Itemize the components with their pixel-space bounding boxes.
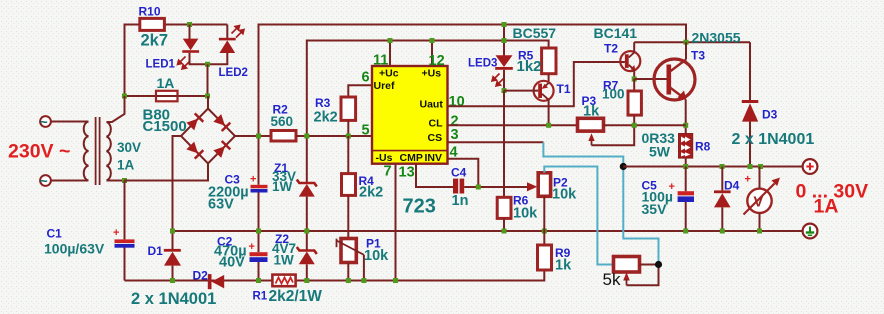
capacitor C3 xyxy=(251,185,268,193)
wire: D4 top stub xyxy=(721,167,723,191)
node: junction fuse right / bridge top xyxy=(205,94,210,99)
svg-text:+: + xyxy=(745,174,751,186)
wire: AC2 line to bridge bottom xyxy=(125,164,209,181)
wire: LED1 top stub xyxy=(189,25,191,40)
svg-text:11: 11 xyxy=(373,53,388,69)
wire: bridge top stub xyxy=(207,96,209,109)
wire: cyan sense line CS to output xyxy=(543,142,658,262)
svg-text:10k: 10k xyxy=(364,248,389,264)
svg-text:R8: R8 xyxy=(695,140,711,154)
svg-text:C1500: C1500 xyxy=(143,118,187,135)
bridge diode upper-right xyxy=(213,114,231,132)
svg-text:2k2: 2k2 xyxy=(314,110,338,126)
node: junction pin12 xyxy=(430,38,435,43)
diode D1 xyxy=(164,249,181,266)
wire: C3/C2 column from raw+ node xyxy=(258,136,260,185)
node: junction secondary bottom xyxy=(122,178,127,183)
wire: C2 bottom stub xyxy=(258,262,260,281)
wire: voltmeter bottom stub xyxy=(759,213,761,231)
resistor R1 (wirewound) xyxy=(272,275,295,287)
wire: 5k wiper loop xyxy=(627,265,659,286)
svg-text:CMP: CMP xyxy=(400,152,423,164)
resistor R4 xyxy=(342,174,356,196)
LED3 light arrows xyxy=(492,74,504,87)
P1 wiper xyxy=(337,239,364,255)
fuse 1A xyxy=(156,91,178,102)
wire: R4 bottom to P1 xyxy=(347,195,349,238)
wire: R7 top stub xyxy=(633,79,635,91)
svg-text:3: 3 xyxy=(451,127,459,143)
svg-text:+Uc: +Uc xyxy=(379,68,399,80)
wire: R4 top stub xyxy=(347,136,349,174)
wire: T2 collector up to rail xyxy=(633,42,635,52)
resistor R5 xyxy=(542,48,556,74)
svg-text:2k2/1W: 2k2/1W xyxy=(269,288,323,305)
node: junction LED3 feed xyxy=(502,38,507,43)
svg-text:10k: 10k xyxy=(552,187,577,203)
wire: LED2 bottom to mid junction xyxy=(208,53,228,64)
node: solder dot 5k wiper xyxy=(655,261,662,268)
wire: T1 collector to CL line xyxy=(548,100,550,126)
wire: T2 emitter down xyxy=(633,70,635,79)
resistor R10 xyxy=(140,18,165,30)
node: junction R10/LED1 xyxy=(187,22,192,27)
diode D4 xyxy=(714,190,731,207)
svg-text:R3: R3 xyxy=(315,96,331,110)
node: junction P3/R7 xyxy=(632,123,637,128)
wire: top-left corner from fuse node up to R10 xyxy=(125,25,140,97)
resistor R2 xyxy=(271,131,296,142)
diode D2 xyxy=(208,274,224,289)
wire: T3 base line xyxy=(634,78,666,80)
node: junction ground rail D1 xyxy=(170,229,175,234)
wire: Z1 bottom to ground xyxy=(306,197,308,231)
potentiometer P2 xyxy=(538,173,550,197)
node: junction T3 emitter / CL / R8 xyxy=(683,123,688,128)
svg-text:BC557: BC557 xyxy=(513,25,557,41)
svg-text:CL: CL xyxy=(429,118,444,130)
wire: IC pin 12 stub xyxy=(431,41,433,67)
svg-text:2k2: 2k2 xyxy=(359,185,383,201)
resistor R6 xyxy=(497,197,511,218)
bridge diode lower-left xyxy=(186,141,204,159)
svg-text:2N3055: 2N3055 xyxy=(692,30,741,46)
wire: cyan line P2 top to 5k pot xyxy=(544,167,613,265)
wire: Z2 bottom to negative rail xyxy=(306,264,308,280)
node: junction negative rail P1 xyxy=(346,278,351,283)
wire: pin 13 CMP to C4 xyxy=(416,164,453,187)
wire: D4 bottom stub xyxy=(721,207,723,231)
svg-text:Uaut: Uaut xyxy=(420,99,444,111)
wire: + output rail xyxy=(623,166,802,168)
node: junction ground rail Z1/Z2 xyxy=(304,229,309,234)
svg-text:35V: 35V xyxy=(642,201,668,217)
wire: R6 bottom to ground rail xyxy=(503,218,505,231)
wire: D3 bottom to output rail xyxy=(749,122,751,167)
node: junction INV/C4 xyxy=(476,185,481,190)
terminal: + output xyxy=(803,159,818,174)
wire: secondary top to fuse node xyxy=(107,96,125,122)
wire: bridge right corner to R2 xyxy=(235,135,271,137)
svg-text:2 x 1N4001: 2 x 1N4001 xyxy=(131,290,216,308)
wire: IC pin 6 Uref to R3 xyxy=(348,85,372,97)
wire: IC pin 11 stub xyxy=(389,41,391,67)
node: junction LED3/T1 base/R6 xyxy=(502,88,507,93)
node: junction D3/output rail xyxy=(748,164,753,169)
transistor T2 BC141 xyxy=(620,51,640,71)
wire: LED3 bottom to T1 base node xyxy=(503,70,505,91)
wire: C1 column lower xyxy=(124,247,126,281)
wire: collector supply rail top xyxy=(259,25,687,137)
wire: mains top lead xyxy=(51,121,89,123)
svg-text:1A: 1A xyxy=(117,158,135,173)
svg-text:63V: 63V xyxy=(208,197,234,213)
svg-text:1k: 1k xyxy=(583,104,600,120)
svg-text:230V ~: 230V ~ xyxy=(8,141,70,163)
wire: C2 top stub xyxy=(258,231,260,252)
LED2 light arrows xyxy=(232,26,245,38)
svg-text:CS: CS xyxy=(428,132,443,144)
wire: fuse line (AC node) xyxy=(125,95,209,97)
node: junction pin11 xyxy=(388,38,393,43)
svg-text:Uref: Uref xyxy=(374,80,396,92)
wire: R3 bottom to NI node xyxy=(347,120,349,136)
capacitor C4 xyxy=(453,179,464,194)
svg-text:~: ~ xyxy=(40,114,48,130)
LED2 diode xyxy=(219,38,236,53)
node: junction negative rail pin7 xyxy=(393,278,398,283)
node: junction T2 emitter/R7/T3 base xyxy=(632,77,637,82)
node: junction R8/output rail xyxy=(683,164,688,169)
node: junction C5/ground xyxy=(683,229,688,234)
capacitor C2 xyxy=(250,252,268,262)
LED3 diode xyxy=(495,55,513,70)
node: junction voltmeter/output rail xyxy=(758,164,763,169)
wire: T3 collector up to rail xyxy=(685,42,687,59)
svg-text:+Us: +Us xyxy=(422,68,442,80)
potentiometer P3 xyxy=(578,118,604,131)
wire: T3 emitter down to R8 xyxy=(685,100,687,134)
node: junction negative rail P1 wiper xyxy=(361,278,366,283)
LED1 light arrows xyxy=(178,57,191,70)
svg-text:BC141: BC141 xyxy=(594,25,638,41)
wire: negative auxiliary bottom rail xyxy=(125,270,545,281)
wire: R8 bottom to output rail xyxy=(685,158,687,166)
svg-text:R10: R10 xyxy=(139,5,161,19)
wire: P2 bottom to ground xyxy=(543,196,545,245)
wire: T1 base line xyxy=(504,90,538,92)
wire: voltmeter top stub xyxy=(759,167,761,189)
wire: LED2 top drop xyxy=(226,25,228,39)
resistor R7 xyxy=(628,91,641,115)
capacitor C5 xyxy=(678,191,694,202)
node: junction ground rail C3/C2 xyxy=(256,229,261,234)
capacitor C1 xyxy=(115,239,135,247)
wire: C1 column upper xyxy=(124,181,126,240)
transformer TR primary winding xyxy=(84,122,89,181)
svg-text:5k: 5k xyxy=(603,270,621,289)
wire: R5 bottom to T1 emitter xyxy=(548,74,550,84)
wire: pin 4 INV to C4 node xyxy=(448,159,479,187)
bridge diode upper-left xyxy=(186,113,204,131)
wire: LED3/R6 column xyxy=(503,25,505,56)
wire: +Uc/+Us feed line xyxy=(307,41,549,137)
svg-text:V: V xyxy=(754,194,764,210)
svg-text:T2: T2 xyxy=(604,42,618,56)
5k wiper arrow xyxy=(623,272,630,285)
wire: P1 wiper to negative rail xyxy=(363,255,365,281)
node: junction R3/R4/NI xyxy=(346,134,351,139)
wire: C3 bottom to ground rail xyxy=(258,192,260,231)
P2 wiper arrow xyxy=(527,182,537,191)
node: junction top rail / LED3 xyxy=(502,22,507,27)
IC U1 723 regulator body xyxy=(372,66,448,164)
P3 wiper arrow xyxy=(588,133,594,145)
svg-text:1A: 1A xyxy=(157,75,175,91)
wire: R7 bottom to CL line xyxy=(633,115,635,125)
svg-text:1k: 1k xyxy=(555,258,572,274)
node: junction negative rail C2 xyxy=(256,278,261,283)
LED1 diode xyxy=(182,39,199,53)
svg-text:D1: D1 xyxy=(148,244,164,258)
node: junction LED1/LED2 bottom xyxy=(205,62,210,67)
node: junction 33V / Z1 xyxy=(304,134,309,139)
svg-text:100: 100 xyxy=(602,87,625,102)
svg-text:R1: R1 xyxy=(253,291,268,303)
svg-text:7: 7 xyxy=(384,164,392,180)
resistor R9 xyxy=(538,245,552,270)
wire: mains bottom lead xyxy=(51,180,89,182)
wire: IC pin 3 CS stub xyxy=(448,141,544,143)
transistor T3 2N3055 xyxy=(654,59,695,100)
wire: P3 right to R8 top node xyxy=(604,124,686,126)
wire: Z2 column top xyxy=(306,231,308,250)
svg-text:2 x 1N4001: 2 x 1N4001 xyxy=(732,131,815,148)
wire: D1 top stub xyxy=(172,231,174,249)
wire: ground rail xyxy=(173,230,803,232)
potentiometer P1 xyxy=(341,239,356,263)
wire: T2/T3 collector rail xyxy=(634,41,750,43)
wire: P3 wiper loop xyxy=(592,125,635,145)
svg-text:+: + xyxy=(249,241,255,253)
wire: R2 right / 33V node to IC pin 5 xyxy=(296,135,372,137)
wire: bridge left corner to minus column xyxy=(173,136,182,231)
svg-text:LED3: LED3 xyxy=(468,58,497,70)
zener Z1 xyxy=(297,180,317,197)
node: junction raw+ / C3 xyxy=(256,134,261,139)
svg-text:D3: D3 xyxy=(762,108,778,122)
svg-text:D4: D4 xyxy=(724,179,740,193)
svg-text:5W: 5W xyxy=(649,144,671,160)
terminal: mains bottom (~) xyxy=(40,173,51,189)
voltmeter V xyxy=(744,178,781,215)
svg-text:~: ~ xyxy=(40,173,48,189)
svg-text:1k2: 1k2 xyxy=(517,58,542,75)
wire: top rail R10 right to LED2 drop xyxy=(164,24,227,26)
svg-text:6: 6 xyxy=(362,70,370,86)
wire: D3 top from collector rail xyxy=(749,42,751,100)
wire: LED1 bottom to mid junction xyxy=(190,53,208,65)
svg-text:13: 13 xyxy=(399,165,415,181)
transistor T1 BC557 xyxy=(534,81,554,101)
wire: IC pin 2 CL line to P3 xyxy=(448,124,578,126)
node: junction voltmeter/ground xyxy=(757,229,762,234)
wire: secondary bottom to AC2 node xyxy=(107,180,125,182)
bridge diode lower-right xyxy=(213,140,231,158)
svg-text:2k7: 2k7 xyxy=(141,32,169,50)
wire: C5 bottom stub xyxy=(685,202,687,231)
wire: IC pin 10 Uaut to T2 base xyxy=(448,62,625,106)
resistor R3 xyxy=(341,97,356,120)
wire: D1 bottom stub xyxy=(172,266,174,281)
terminal: mains top (~) xyxy=(40,114,51,130)
wire: Z1 column top xyxy=(306,136,308,182)
terminal: ground output xyxy=(803,224,818,239)
svg-text:100µ/63V: 100µ/63V xyxy=(44,241,105,257)
potentiometer 5k xyxy=(614,257,640,273)
node: junction collector rail / supply xyxy=(684,40,689,45)
svg-text:1n: 1n xyxy=(452,193,469,209)
svg-text:1W: 1W xyxy=(274,253,295,268)
svg-text:5: 5 xyxy=(362,123,370,139)
node: junction D4/ground xyxy=(720,229,725,234)
bridge rectifier B80C1500 frame xyxy=(181,109,235,164)
node: junction ground rail P2/R9 xyxy=(542,229,547,234)
svg-text:-Us: -Us xyxy=(376,152,393,164)
wire: R6 column down xyxy=(503,91,505,198)
transformer core xyxy=(96,117,100,185)
svg-text:C4: C4 xyxy=(451,166,467,180)
svg-text:1A: 1A xyxy=(814,196,839,218)
node: junction D4/output rail xyxy=(720,164,725,169)
svg-text:INV: INV xyxy=(425,152,443,164)
svg-text:723: 723 xyxy=(403,196,436,218)
svg-text:LED2: LED2 xyxy=(219,67,248,79)
svg-text:+: + xyxy=(113,227,119,239)
svg-text:560: 560 xyxy=(271,114,294,129)
node: junction fuse left xyxy=(122,94,127,99)
svg-text:T3: T3 xyxy=(691,49,705,63)
node: junction negative rail D1 xyxy=(170,278,175,283)
svg-text:+: + xyxy=(250,174,256,186)
wire: LED junction down to fuse line xyxy=(207,64,209,96)
diode D3 xyxy=(742,100,759,122)
svg-text:12: 12 xyxy=(429,53,445,69)
resistor R8 0R33 5W xyxy=(679,134,693,159)
svg-text:1W: 1W xyxy=(272,179,293,194)
svg-text:40V: 40V xyxy=(219,255,245,271)
wire: P1 bottom to negative rail xyxy=(347,263,349,281)
svg-text:T1: T1 xyxy=(557,82,571,96)
wire: C5 top stub xyxy=(685,167,687,192)
svg-text:10k: 10k xyxy=(513,206,538,222)
wire: C4 right to P2 wiper line xyxy=(464,186,527,188)
wire: 5k right terminal xyxy=(640,264,659,266)
svg-text:10: 10 xyxy=(449,94,465,110)
wire: pin 7 (-Us) to negative rail xyxy=(395,164,397,281)
svg-text:30V: 30V xyxy=(117,140,141,155)
transformer secondary winding xyxy=(107,122,111,180)
node: junction R6/ground xyxy=(502,229,507,234)
svg-text:D2: D2 xyxy=(193,269,209,283)
svg-text:LED1: LED1 xyxy=(146,59,176,71)
node: junction negative rail Z2 xyxy=(304,278,309,283)
svg-text:C1: C1 xyxy=(47,227,63,241)
node: junction T1 collector/CL xyxy=(546,123,551,128)
zener Z2 xyxy=(297,247,317,264)
node: solder dot output tap xyxy=(620,163,627,170)
